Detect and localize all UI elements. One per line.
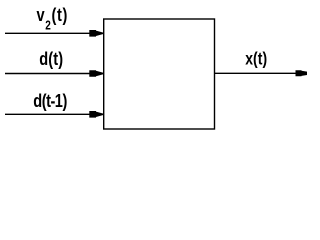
arrowhead: output x(t) (296, 70, 314, 76)
svg-text:d(t-1): d(t-1) (33, 90, 67, 111)
wire: output x(t) (215, 72, 297, 74)
block U1 (system box) (104, 19, 215, 129)
svg-text:d(t): d(t) (39, 48, 63, 69)
wire: input v2(t) (5, 32, 91, 34)
arrowhead: input d(t-1) (89, 111, 103, 118)
wire: input d(t) (5, 73, 91, 75)
svg-text:x(t): x(t) (245, 49, 267, 69)
arrowhead: input d(t) (89, 70, 103, 77)
wire: input d(t-1) (5, 113, 91, 115)
arrowhead: input v2(t) (89, 30, 103, 37)
